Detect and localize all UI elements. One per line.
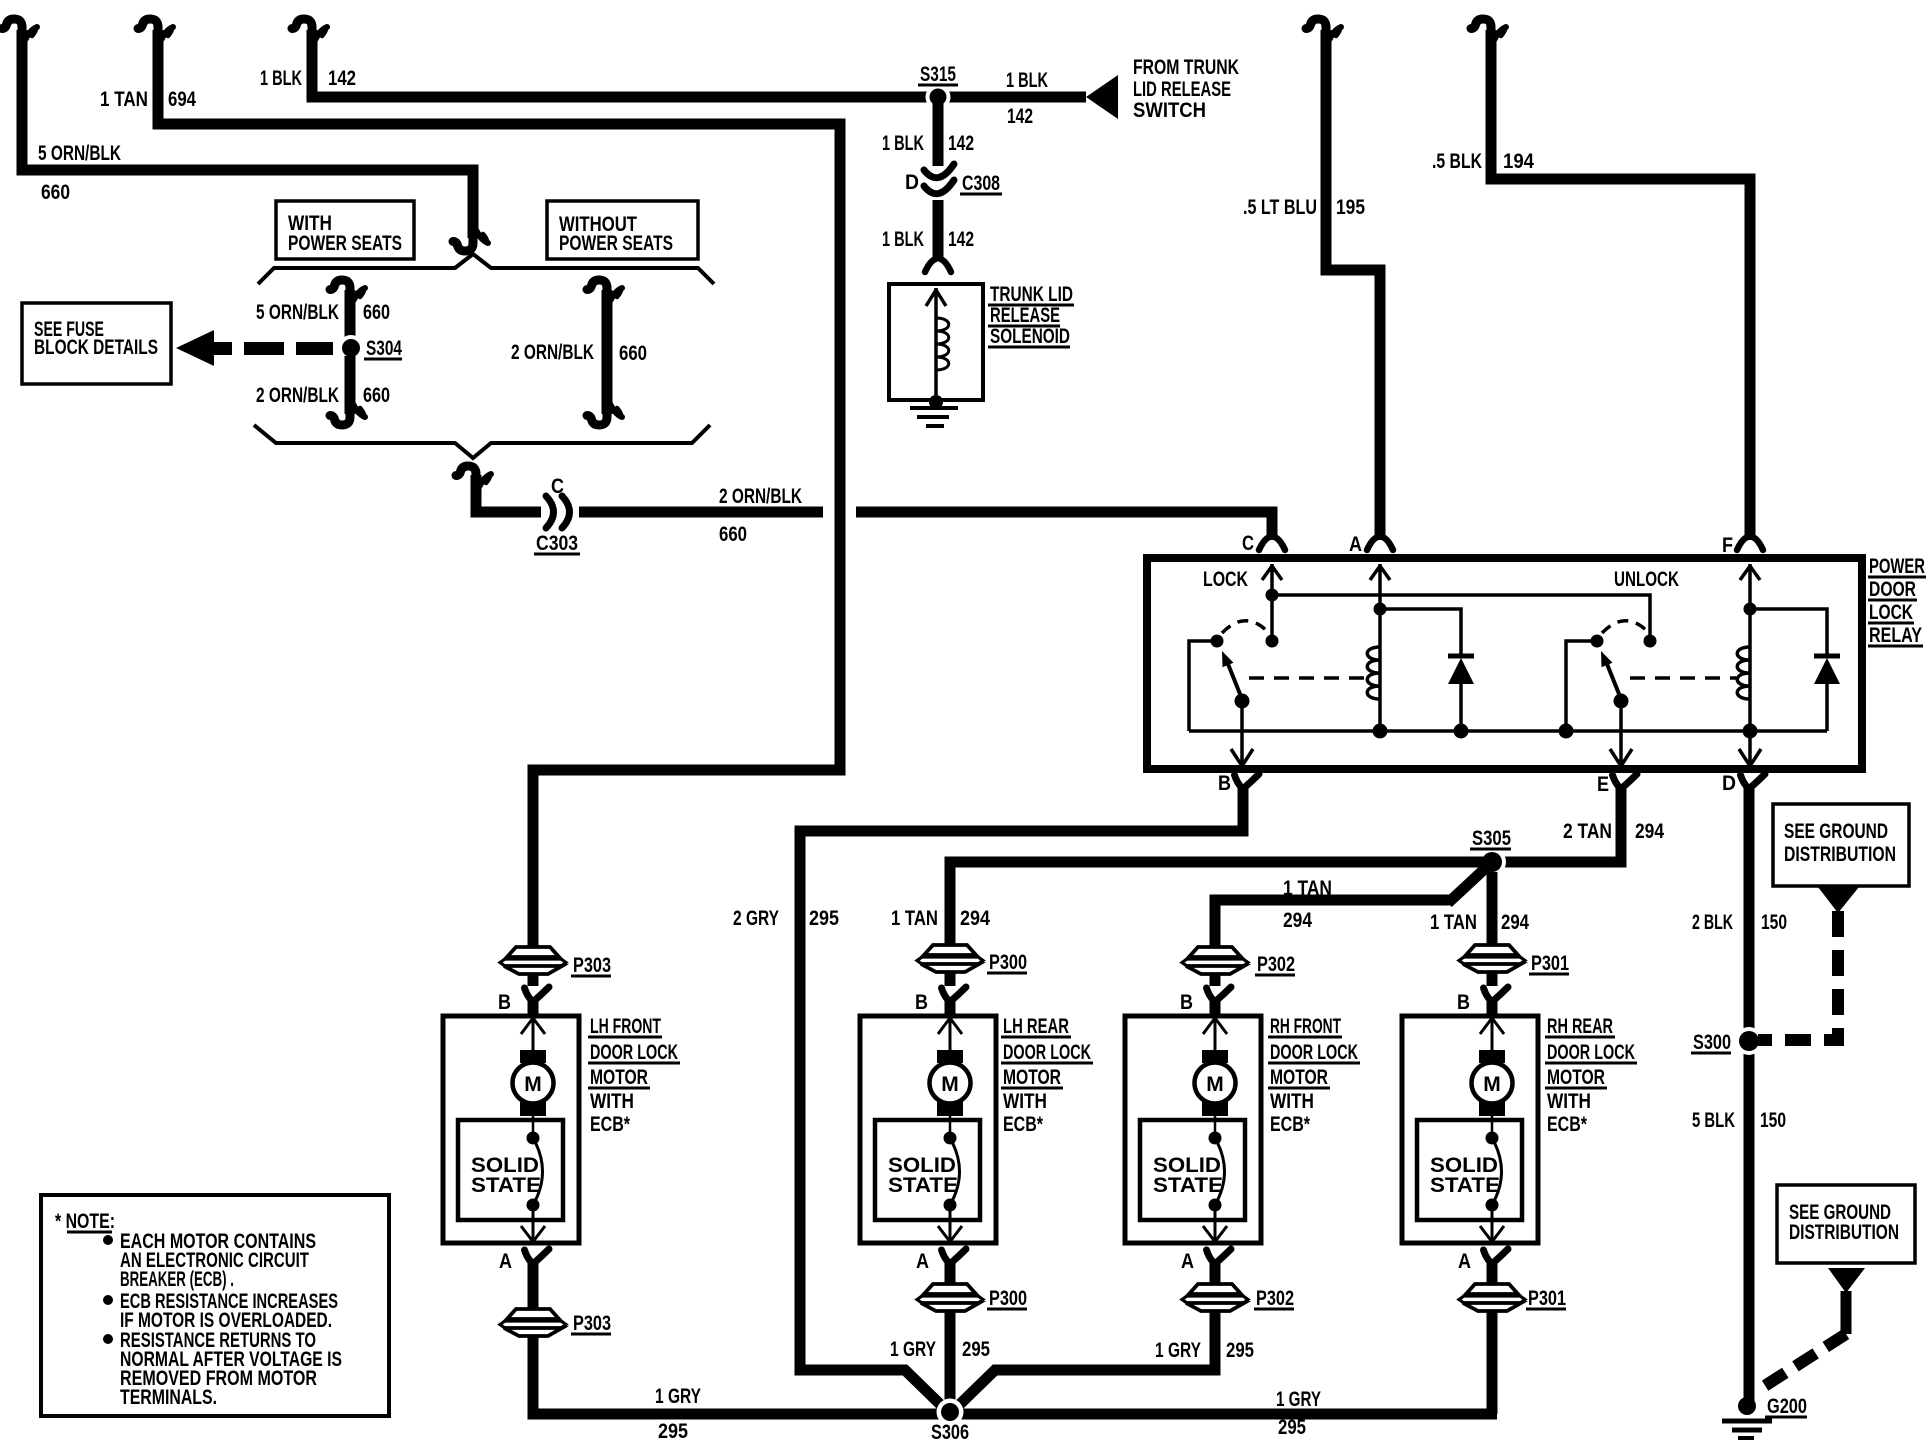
connector P303 top	[500, 947, 566, 974]
brace lower (options)	[254, 425, 710, 458]
svg-text:1 TAN: 1 TAN	[891, 907, 938, 930]
svg-text:E: E	[1597, 773, 1609, 796]
wire 2 ORN/BLK continues (gap at 1 TAN crossing)	[579, 507, 823, 518]
svg-text:S315: S315	[920, 63, 956, 86]
relay internal: diode 1	[1380, 609, 1461, 731]
svg-text:S306: S306	[931, 1421, 969, 1440]
svg-text:ECB*: ECB*	[590, 1113, 631, 1136]
dashed wire to S300	[1758, 911, 1838, 1040]
svg-text:1 TAN: 1 TAN	[1283, 877, 1332, 900]
svg-text:150: 150	[1760, 1109, 1786, 1132]
svg-text:TRUNK LID: TRUNK LID	[990, 283, 1073, 306]
svg-text:2 ORN/BLK: 2 ORN/BLK	[719, 485, 802, 508]
relay internal: unlock output to E	[1610, 701, 1632, 766]
svg-text:LOCK: LOCK	[1869, 601, 1913, 624]
LH rear door lock motor with ECB	[860, 987, 996, 1274]
svg-text:660: 660	[363, 384, 390, 407]
connector hook end of 5 ORN/BLK at brace	[453, 230, 488, 251]
relay internal: C input line with arrow	[1262, 564, 1282, 641]
see ground distribution box lower	[1777, 1185, 1915, 1263]
svg-text:LH FRONT: LH FRONT	[590, 1015, 661, 1038]
wire motor A to P301 bottom	[1487, 1272, 1498, 1284]
svg-text:* NOTE:: * NOTE:	[55, 1210, 115, 1233]
wire 2 TAN 294 from relay E to S305	[1492, 787, 1621, 862]
svg-text:WITH: WITH	[590, 1090, 634, 1113]
svg-text:BREAKER (ECB) .: BREAKER (ECB) .	[120, 1268, 234, 1291]
relay internal: unlock coil (F)	[1740, 564, 1760, 731]
svg-text:DOOR LOCK: DOOR LOCK	[590, 1041, 678, 1064]
svg-text:142: 142	[948, 132, 974, 155]
relay internal: lock switch	[1211, 635, 1224, 648]
dashed wire to fuse block	[244, 342, 284, 355]
connector C308	[924, 164, 954, 178]
wire 1 TAN 294 S305 to LH rear motor	[950, 862, 1492, 946]
svg-text:2 GRY: 2 GRY	[733, 907, 779, 930]
wire P303 to motor	[528, 975, 539, 986]
svg-text:WITH: WITH	[1003, 1090, 1047, 1113]
solenoid coil	[936, 318, 949, 370]
wire motor A to P303 bottom	[528, 1272, 539, 1309]
svg-text:DISTRIBUTION: DISTRIBUTION	[1784, 843, 1896, 866]
brace upper (options)	[258, 254, 714, 284]
with power seats box	[276, 201, 414, 259]
svg-text:142: 142	[948, 228, 974, 251]
svg-text:MOTOR: MOTOR	[1270, 1066, 1328, 1089]
svg-text:FROM TRUNK: FROM TRUNK	[1133, 56, 1239, 79]
svg-text:MOTOR: MOTOR	[590, 1066, 648, 1089]
svg-text:DOOR LOCK: DOOR LOCK	[1270, 1041, 1358, 1064]
wire 2 ORN/BLK 660 from brace to relay C	[456, 466, 491, 487]
svg-text:DOOR: DOOR	[1869, 578, 1916, 601]
wire 2 GRY 295 from relay B to S306	[800, 787, 1243, 1409]
svg-text:P303: P303	[573, 954, 611, 977]
relay terminal C	[1259, 537, 1285, 550]
svg-text:UNLOCK: UNLOCK	[1614, 568, 1679, 591]
relay internal: lock linkage dashed	[1249, 676, 1366, 680]
svg-text:5 BLK: 5 BLK	[1692, 1109, 1735, 1132]
svg-text:MOTOR: MOTOR	[1547, 1066, 1605, 1089]
svg-text:RELAY: RELAY	[1869, 624, 1922, 647]
connector P300 top	[917, 945, 983, 972]
relay internal: line C to unlock contact	[1272, 595, 1650, 636]
see ground distribution box upper	[1773, 804, 1909, 886]
see fuse block details box	[22, 303, 171, 384]
svg-text:C: C	[551, 475, 564, 498]
svg-text:WITH: WITH	[1547, 1090, 1591, 1113]
svg-text:SWITCH: SWITCH	[1133, 99, 1206, 122]
svg-text:F: F	[1722, 534, 1733, 557]
svg-text:POWER: POWER	[1869, 555, 1925, 578]
svg-text:1 BLK: 1 BLK	[260, 67, 302, 90]
svg-text:694: 694	[168, 88, 196, 111]
wire motor A to P302 bottom	[1210, 1272, 1221, 1284]
svg-text:2 ORN/BLK: 2 ORN/BLK	[511, 341, 594, 364]
svg-text:295: 295	[1226, 1339, 1254, 1362]
svg-text:D: D	[905, 171, 919, 194]
svg-text:142: 142	[328, 67, 356, 90]
svg-text:.5 LT BLU: .5 LT BLU	[1243, 196, 1317, 219]
splice S304	[338, 335, 364, 361]
svg-text:DISTRIBUTION: DISTRIBUTION	[1789, 1221, 1899, 1244]
svg-text:1 BLK: 1 BLK	[1006, 69, 1048, 92]
svg-text:LOCK: LOCK	[1203, 568, 1248, 591]
connector C303	[546, 496, 554, 528]
svg-text:660: 660	[41, 181, 70, 204]
svg-text:ECB*: ECB*	[1547, 1113, 1588, 1136]
connector P302 top	[1182, 947, 1248, 974]
svg-text:1 GRY: 1 GRY	[890, 1338, 936, 1361]
relay internal: bottom rail	[1189, 729, 1827, 733]
svg-text:C308: C308	[962, 172, 1000, 195]
wire: feed 1 BLK 142 to S315	[312, 30, 1086, 97]
relay terminal E	[1613, 774, 1638, 788]
branch with power seats: wire 5 ORN/BLK to S304	[330, 280, 365, 301]
svg-text:294: 294	[1635, 820, 1664, 843]
relay internal: diode 2	[1750, 609, 1827, 731]
svg-text:294: 294	[1501, 911, 1529, 934]
power door lock relay box	[1147, 558, 1862, 769]
RH rear door lock motor with ECB	[1402, 987, 1538, 1274]
svg-text:S304: S304	[366, 337, 402, 360]
svg-text:POWER SEATS: POWER SEATS	[288, 232, 402, 255]
arrow from box	[1828, 1268, 1865, 1293]
svg-text:660: 660	[619, 342, 647, 365]
svg-text:P300: P300	[989, 951, 1027, 974]
connector P301 bottom	[1459, 1284, 1525, 1311]
svg-text:2 ORN/BLK: 2 ORN/BLK	[256, 384, 339, 407]
svg-text:P301: P301	[1531, 952, 1569, 975]
terminal into solenoid	[925, 259, 951, 272]
svg-text:BLOCK DETAILS: BLOCK DETAILS	[34, 336, 158, 359]
svg-text:1 BLK: 1 BLK	[882, 132, 924, 155]
svg-text:1 BLK: 1 BLK	[882, 228, 924, 251]
svg-text:295: 295	[809, 907, 839, 930]
arrow to trunk lid release switch	[1086, 75, 1118, 119]
ground at solenoid	[929, 395, 943, 409]
svg-text:1 GRY: 1 GRY	[1155, 1339, 1201, 1362]
svg-text:5 ORN/BLK: 5 ORN/BLK	[256, 301, 339, 324]
wire 1 GRY 295 RH rear to S306	[1487, 1312, 1498, 1414]
svg-text:SOLENOID: SOLENOID	[990, 325, 1070, 348]
svg-text:DOOR LOCK: DOOR LOCK	[1003, 1041, 1091, 1064]
svg-text:2 TAN: 2 TAN	[1563, 820, 1612, 843]
wire 1 GRY 295 RH front to S306	[956, 1312, 1215, 1408]
svg-text:194: 194	[1503, 150, 1534, 173]
relay terminal B	[1235, 774, 1260, 788]
wire: feed 5 ORN/BLK 660 from top-left	[22, 30, 473, 238]
connector hook top 1 BLK feed	[292, 19, 327, 40]
svg-text:142: 142	[1007, 105, 1033, 128]
relay internal: unlock linkage dashed	[1630, 676, 1736, 680]
splice S300	[1735, 1027, 1763, 1055]
svg-text:P302: P302	[1256, 1287, 1294, 1310]
wire 1 GRY 295 LH rear to S306	[945, 1312, 956, 1407]
relay internal: lock output to B	[1231, 701, 1253, 766]
svg-text:S300: S300	[1693, 1031, 1731, 1054]
svg-text:1 GRY: 1 GRY	[1276, 1388, 1321, 1411]
arrow from box	[1818, 887, 1859, 913]
svg-text:660: 660	[719, 523, 747, 546]
svg-text:1 TAN: 1 TAN	[1430, 911, 1477, 934]
svg-text:P301: P301	[1528, 1287, 1566, 1310]
wire 1 GRY 295 LH front to S306	[533, 1337, 1497, 1414]
svg-text:MOTOR: MOTOR	[1003, 1066, 1061, 1089]
svg-text:RH REAR: RH REAR	[1547, 1015, 1613, 1038]
ground G200	[1738, 1397, 1756, 1415]
wire 1 TAN 294 S305 to RH front motor	[1448, 863, 1491, 903]
connector P303 bottom	[500, 1309, 566, 1336]
solenoid internal wire with arrow	[926, 288, 946, 395]
relay internal: D output	[1739, 731, 1761, 766]
svg-text:660: 660	[363, 301, 390, 324]
arrow to fuse block	[176, 330, 214, 366]
svg-text:WITH: WITH	[1270, 1090, 1314, 1113]
svg-text:LH REAR: LH REAR	[1003, 1015, 1069, 1038]
note box	[41, 1195, 389, 1416]
svg-text:LID RELEASE: LID RELEASE	[1133, 78, 1231, 101]
svg-text:295: 295	[962, 1338, 990, 1361]
svg-text:P302: P302	[1257, 953, 1295, 976]
wire .5 LT BLU 195 feed to relay A	[1326, 30, 1380, 540]
RH front door lock motor with ECB	[1125, 987, 1261, 1274]
svg-text:TERMINALS.: TERMINALS.	[120, 1386, 217, 1409]
svg-text:D: D	[1722, 772, 1736, 795]
svg-text:195: 195	[1336, 196, 1365, 219]
svg-text:1 TAN: 1 TAN	[100, 88, 148, 111]
svg-text:G200: G200	[1767, 1395, 1807, 1418]
wire: feed 1 TAN 694, down right side to LH front motor column	[158, 30, 840, 947]
splice S305	[1478, 848, 1506, 876]
connector P300 bottom	[917, 1284, 983, 1311]
svg-text:2 BLK: 2 BLK	[1692, 911, 1733, 934]
relay internal: lock coil (A)	[1370, 564, 1390, 731]
svg-text:A: A	[1349, 533, 1362, 556]
svg-text:294: 294	[1283, 909, 1312, 932]
svg-text:B: B	[1218, 772, 1231, 795]
relay terminal F	[1737, 537, 1763, 550]
svg-text:ECB*: ECB*	[1003, 1113, 1044, 1136]
svg-text:P303: P303	[573, 1312, 611, 1335]
dashed wire to G200	[1763, 1334, 1846, 1387]
svg-text:RELEASE: RELEASE	[990, 304, 1060, 327]
splice S306	[937, 1399, 964, 1426]
svg-text:C303: C303	[536, 532, 578, 555]
svg-text:S305: S305	[1472, 827, 1511, 850]
svg-text:RH FRONT: RH FRONT	[1270, 1015, 1341, 1038]
connector hook top-left feed	[2, 19, 37, 40]
svg-text:1 GRY: 1 GRY	[655, 1385, 701, 1408]
without power seats box	[547, 201, 698, 259]
branch without power seats: wire 2 ORN/BLK 660	[587, 280, 622, 301]
svg-text:P300: P300	[989, 1287, 1027, 1310]
svg-text:ECB*: ECB*	[1270, 1113, 1311, 1136]
relay terminal D	[1741, 774, 1766, 788]
svg-text:SEE GROUND: SEE GROUND	[1784, 820, 1888, 843]
connector P301 top	[1459, 945, 1525, 972]
svg-text:294: 294	[960, 907, 990, 930]
svg-text:5 ORN/BLK: 5 ORN/BLK	[38, 142, 121, 165]
svg-text:295: 295	[1278, 1416, 1306, 1439]
wire motor A to P300 bottom	[945, 1272, 956, 1284]
splice S315	[926, 85, 951, 110]
wire: 1 BLK 142 from C308 to solenoid	[933, 200, 944, 258]
wire 2 BLK 150 from relay D to S300	[1744, 787, 1755, 1402]
wire 2 ORN/BLK below S304	[345, 356, 356, 414]
wire 1 TAN 294 S305 to RH rear motor	[1487, 872, 1498, 946]
svg-text:C: C	[1242, 532, 1254, 555]
connector P302 bottom	[1182, 1284, 1248, 1311]
svg-text:295: 295	[658, 1420, 688, 1440]
relay terminal A	[1367, 537, 1393, 550]
LH front door lock motor with ECB	[443, 987, 579, 1274]
svg-text:150: 150	[1761, 911, 1787, 934]
wire: 1 BLK 142 from S315 down to C308	[933, 103, 944, 166]
connector hook top 1 TAN feed	[138, 19, 173, 40]
wire .5 BLK 194 feed to relay F	[1491, 30, 1750, 540]
trunk lid release solenoid box	[889, 284, 983, 400]
svg-text:POWER SEATS: POWER SEATS	[559, 232, 673, 255]
svg-text:DOOR LOCK: DOOR LOCK	[1547, 1041, 1635, 1064]
relay internal: unlock switch	[1591, 635, 1604, 648]
svg-text:.5 BLK: .5 BLK	[1432, 150, 1482, 173]
